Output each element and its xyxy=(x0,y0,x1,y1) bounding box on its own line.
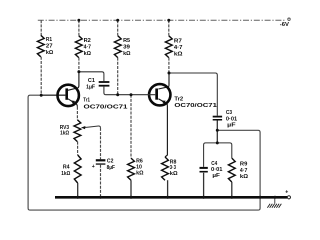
svg-text:R9: R9 xyxy=(240,162,248,168)
svg-text:1kΩ: 1kΩ xyxy=(61,171,70,177)
svg-text:kΩ: kΩ xyxy=(46,50,54,56)
svg-text:10: 10 xyxy=(136,164,142,170)
svg-text:Tr2: Tr2 xyxy=(174,97,184,103)
svg-text:1µF: 1µF xyxy=(86,84,95,90)
svg-text:Tr1: Tr1 xyxy=(83,97,90,103)
svg-text:+: + xyxy=(285,190,288,196)
svg-text:4·7: 4·7 xyxy=(84,45,92,51)
svg-text:C3: C3 xyxy=(226,110,233,116)
svg-text:27: 27 xyxy=(46,44,53,50)
svg-text:R1: R1 xyxy=(46,37,53,43)
svg-text:µF: µF xyxy=(227,123,236,129)
svg-text:4·7: 4·7 xyxy=(240,168,248,174)
svg-text:OC70/OC71: OC70/OC71 xyxy=(84,104,129,110)
svg-text:R4: R4 xyxy=(63,165,70,171)
svg-text:1kΩ: 1kΩ xyxy=(60,131,69,137)
svg-text:8µF: 8µF xyxy=(107,165,116,171)
svg-text:C4: C4 xyxy=(211,161,218,167)
svg-text:kΩ: kΩ xyxy=(170,171,178,177)
svg-text:R5: R5 xyxy=(123,38,131,44)
svg-text:+: + xyxy=(92,164,95,170)
svg-text:-6V: -6V xyxy=(280,22,290,28)
svg-text:4·7: 4·7 xyxy=(174,45,183,51)
svg-text:R7: R7 xyxy=(174,39,183,45)
svg-text:C1: C1 xyxy=(88,78,96,84)
svg-text:kΩ: kΩ xyxy=(240,174,248,180)
svg-text:kΩ: kΩ xyxy=(174,52,183,58)
svg-text:kΩ: kΩ xyxy=(136,170,144,176)
svg-text:39: 39 xyxy=(123,45,131,51)
svg-text:C2: C2 xyxy=(107,158,114,164)
svg-text:kΩ: kΩ xyxy=(84,51,92,57)
svg-text:µF: µF xyxy=(212,173,220,179)
svg-text:R2: R2 xyxy=(84,38,92,44)
svg-text:OC70/OC71: OC70/OC71 xyxy=(174,103,217,109)
svg-text:0·01: 0·01 xyxy=(226,116,238,122)
svg-text:kΩ: kΩ xyxy=(123,51,131,57)
